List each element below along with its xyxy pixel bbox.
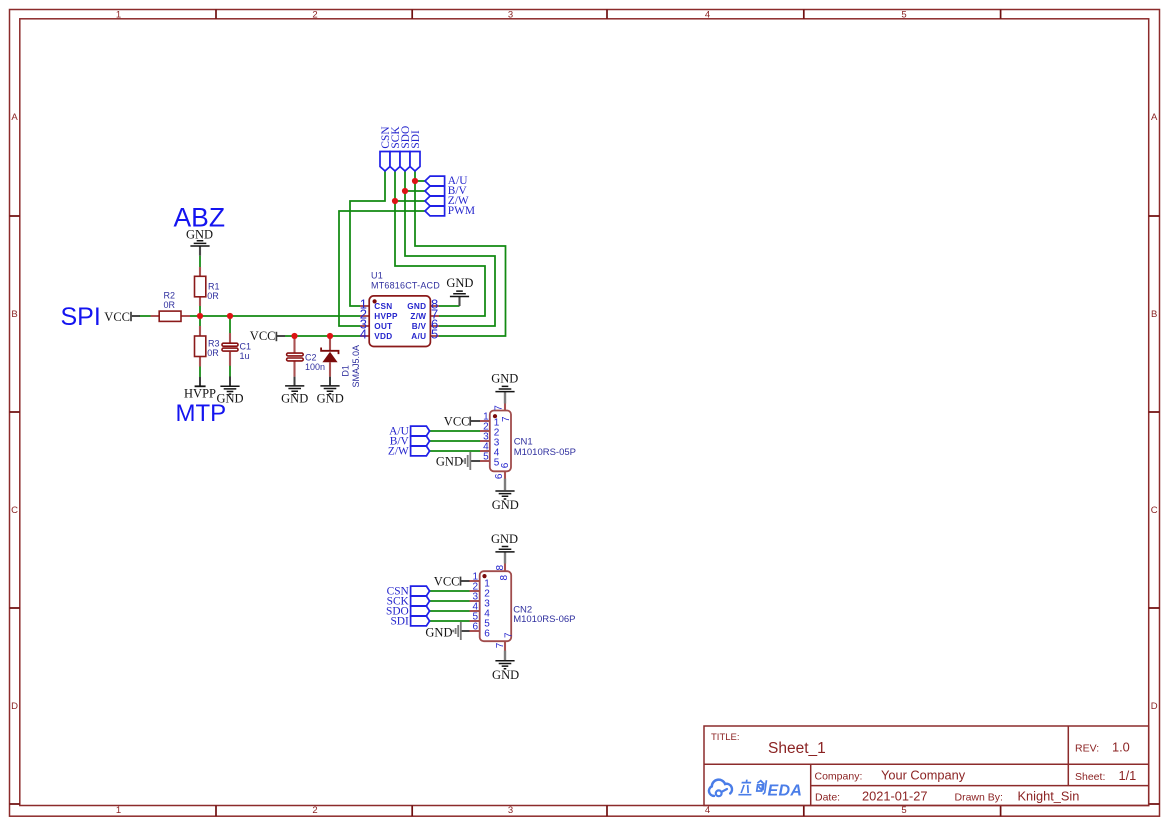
svg-text:GND: GND xyxy=(491,372,518,386)
svg-text:1.0: 1.0 xyxy=(1112,740,1130,755)
svg-text:R3: R3 xyxy=(208,339,220,349)
svg-text:2: 2 xyxy=(312,10,317,21)
svg-text:Company:: Company: xyxy=(815,771,863,783)
svg-text:100n: 100n xyxy=(305,362,325,372)
svg-text:SPI: SPI xyxy=(61,303,101,331)
svg-text:OUT: OUT xyxy=(374,322,392,331)
svg-text:1: 1 xyxy=(116,10,121,21)
svg-text:GND: GND xyxy=(491,532,518,546)
svg-text:5: 5 xyxy=(494,458,500,469)
svg-text:SDI: SDI xyxy=(410,130,422,149)
svg-text:MT6816CT-ACD: MT6816CT-ACD xyxy=(371,281,440,291)
svg-text:0R: 0R xyxy=(207,348,219,358)
svg-text:MTP: MTP xyxy=(176,400,227,427)
svg-text:4: 4 xyxy=(360,327,367,342)
svg-text:TITLE:: TITLE: xyxy=(711,732,740,743)
svg-text:Date:: Date: xyxy=(815,792,840,804)
svg-text:D: D xyxy=(11,701,18,712)
svg-text:GND: GND xyxy=(446,276,473,290)
svg-text:GND: GND xyxy=(281,392,308,406)
svg-text:Z/W: Z/W xyxy=(388,446,409,458)
svg-text:D1: D1 xyxy=(340,365,350,377)
svg-text:1: 1 xyxy=(116,805,121,816)
svg-text:REV:: REV: xyxy=(1075,743,1099,755)
svg-text:3: 3 xyxy=(508,805,513,816)
svg-text:7: 7 xyxy=(501,416,512,422)
svg-text:8: 8 xyxy=(499,575,510,581)
svg-text:SMAJ5.0A: SMAJ5.0A xyxy=(351,345,361,388)
svg-text:5: 5 xyxy=(483,452,489,463)
svg-text:0R: 0R xyxy=(164,300,176,310)
svg-text:0R: 0R xyxy=(207,291,219,301)
svg-text:B: B xyxy=(11,309,17,320)
svg-text:VCC: VCC xyxy=(104,310,130,324)
svg-text:2: 2 xyxy=(312,805,317,816)
svg-text:R2: R2 xyxy=(164,291,176,301)
svg-text:C: C xyxy=(11,505,18,516)
svg-text:C2: C2 xyxy=(305,352,317,362)
svg-text:ABZ: ABZ xyxy=(174,203,226,233)
svg-text:Z/W: Z/W xyxy=(410,312,426,321)
svg-text:7: 7 xyxy=(495,642,506,648)
svg-text:2021-01-27: 2021-01-27 xyxy=(862,789,927,804)
svg-text:4: 4 xyxy=(705,805,710,816)
svg-text:PWM: PWM xyxy=(448,205,475,217)
svg-text:SDI: SDI xyxy=(390,616,409,628)
svg-text:Knight_Sin: Knight_Sin xyxy=(1018,789,1080,804)
svg-text:GND: GND xyxy=(317,392,344,406)
svg-text:D: D xyxy=(1151,701,1158,712)
svg-text:C: C xyxy=(1151,505,1158,516)
svg-text:A: A xyxy=(1151,112,1158,123)
svg-text:Drawn By:: Drawn By: xyxy=(955,792,1003,804)
svg-text:GND: GND xyxy=(492,498,519,512)
svg-text:6: 6 xyxy=(484,628,490,639)
svg-text:5: 5 xyxy=(901,805,906,816)
svg-text:R1: R1 xyxy=(208,281,220,291)
svg-text:6: 6 xyxy=(500,462,511,468)
svg-text:5: 5 xyxy=(901,10,906,21)
svg-text:GND: GND xyxy=(492,668,519,682)
svg-text:4: 4 xyxy=(705,10,710,21)
svg-text:7: 7 xyxy=(493,405,504,411)
svg-text:M1010RS-06P: M1010RS-06P xyxy=(513,614,575,625)
svg-text:HVPP: HVPP xyxy=(374,312,398,321)
svg-text:U1: U1 xyxy=(371,271,383,281)
svg-text:8: 8 xyxy=(495,565,506,571)
svg-text:M1010RS-05P: M1010RS-05P xyxy=(514,447,576,458)
svg-text:Sheet:: Sheet: xyxy=(1075,771,1105,783)
svg-text:EDA: EDA xyxy=(768,782,803,799)
svg-text:B/V: B/V xyxy=(412,322,427,331)
svg-text:B: B xyxy=(1151,309,1157,320)
svg-text:1u: 1u xyxy=(240,351,250,361)
svg-text:Your Company: Your Company xyxy=(881,768,966,783)
svg-text:A: A xyxy=(11,112,18,123)
svg-text:GND: GND xyxy=(425,625,452,639)
svg-text:5: 5 xyxy=(431,327,438,342)
svg-text:6: 6 xyxy=(494,473,505,479)
svg-text:VDD: VDD xyxy=(374,332,392,341)
svg-text:Sheet_1: Sheet_1 xyxy=(768,740,826,757)
svg-text:HVPP: HVPP xyxy=(184,387,216,401)
svg-text:VCC: VCC xyxy=(434,575,460,589)
svg-text:A/U: A/U xyxy=(411,332,426,341)
svg-text:VCC: VCC xyxy=(250,329,276,343)
svg-text:CSN: CSN xyxy=(374,302,392,311)
svg-text:GND: GND xyxy=(436,455,463,469)
svg-text:3: 3 xyxy=(508,10,513,21)
svg-text:VCC: VCC xyxy=(444,415,470,429)
svg-text:GND: GND xyxy=(407,302,426,311)
svg-text:1/1: 1/1 xyxy=(1119,768,1137,783)
svg-text:6: 6 xyxy=(472,622,478,633)
svg-text:7: 7 xyxy=(503,632,514,638)
